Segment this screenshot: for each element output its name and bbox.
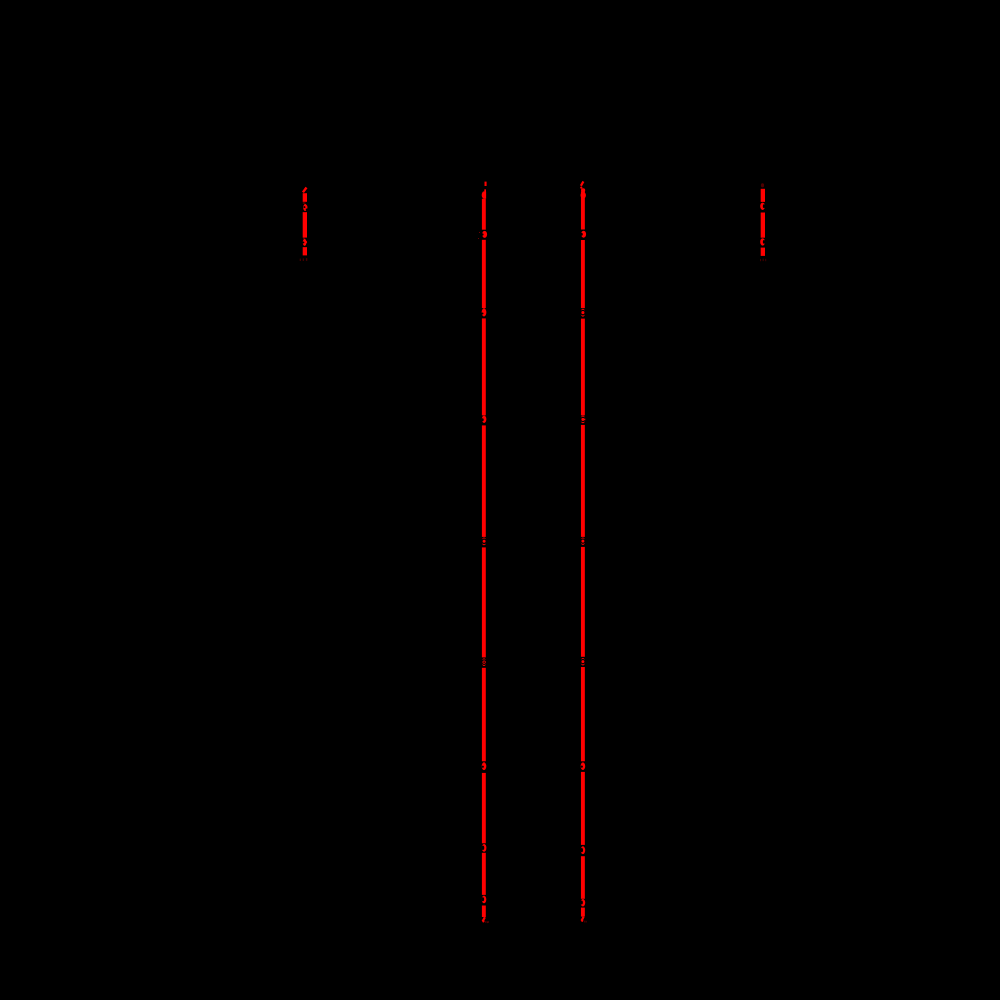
series 2: mark 7 red blob	[482, 844, 487, 852]
series 3: mark 1 red blob	[581, 231, 586, 238]
series 2: bottom end blob	[482, 920, 484, 923]
series 1: bar segment b	[303, 212, 307, 237]
series 3: top blob upper	[581, 188, 585, 192]
series 3: end label sliver 2	[585, 921, 588, 923]
series 2: mark 2 left notch	[481, 312, 483, 314]
series 3: mark 6 red blob	[581, 762, 586, 770]
series 3: mark 7 left bite	[580, 848, 583, 852]
series 3: mark 4 glyph ring	[581, 539, 585, 543]
series 2: mark 8 red blob	[482, 896, 487, 904]
series 2: mark 5 red blob	[482, 658, 487, 666]
series 2: top label red fragment 2	[484, 189, 486, 192]
series 2: mark 7 left bite	[482, 846, 485, 850]
series 2: mark 5 glyph ring	[482, 660, 487, 665]
series 3: bar segment c	[581, 319, 585, 416]
series 2: end label sliver 3	[487, 921, 490, 923]
series 2: mark 3 red blob	[482, 416, 487, 423]
series 2: mark 5 center dot	[483, 661, 485, 663]
series 1: mark A glyph counter hole	[304, 206, 306, 208]
series 2: mark 1 left notch	[481, 233, 483, 235]
series 1: mark A red blob (marker+label gap)	[303, 204, 307, 211]
series 3: bar segment h	[581, 856, 585, 899]
series 1: mark A right bite	[306, 209, 308, 211]
series 1: mark A dim band	[303, 202, 306, 204]
series 3: bar segment i	[581, 908, 585, 917]
series 4: top dim dot	[761, 183, 764, 187]
series 2: mark 6 red blob	[482, 762, 487, 770]
series 4: mark B red blob	[760, 238, 765, 245]
series 1: end label sliver 3	[306, 258, 307, 261]
series 4: mark A right bite	[763, 204, 765, 208]
series 3: mark 1 left notch	[580, 233, 582, 236]
series 2: top red blob flat right	[484, 192, 486, 199]
series 2: bar segment c	[482, 318, 486, 415]
series 3: top connector dash	[581, 181, 584, 185]
series 2: top red blob	[482, 191, 486, 198]
series 2: bar segment e	[482, 547, 486, 657]
series 3: mark 5 glyph ring	[581, 660, 585, 664]
series 2: bar segment h	[482, 853, 486, 895]
series 4: end label sliver 3	[765, 259, 766, 261]
series 4: mark A red blob	[760, 203, 765, 210]
series 4: mark B right bite	[763, 240, 765, 244]
series 4: end label sliver 2	[763, 259, 764, 262]
series 1: mark B dim band	[303, 238, 305, 239]
series 3: mark 5 red blob	[581, 658, 586, 665]
series 3: bar segment d	[581, 425, 585, 537]
series 2: mark 6 left notch	[482, 766, 484, 768]
series 2: end label sliver 1	[485, 921, 486, 923]
series 4: bar segment c	[761, 248, 765, 256]
series 3: mark 8 left bite	[580, 901, 583, 905]
series 2: end label sliver 2	[487, 921, 488, 923]
series 3: mark 4 red blob	[581, 538, 586, 545]
series 3: bar segment b	[581, 240, 585, 308]
series 2: mark 4 red blob	[482, 538, 487, 546]
series 3: mark 2 glyph ring	[581, 310, 585, 314]
series 2: bottom connector tail	[483, 917, 485, 921]
series 3: bar segment e	[581, 547, 585, 657]
series 3: mark 3 red blob	[581, 416, 586, 424]
series 1: mark A right bump	[306, 205, 308, 209]
series 2: bar segment f	[482, 668, 486, 762]
series 2: mark 1 red blob	[482, 231, 487, 238]
series 3: mark 6 left notch	[581, 766, 583, 768]
series 3: top blob lower	[581, 192, 586, 199]
series 3: bottom end blob	[581, 919, 583, 922]
series 1: bar segment c	[303, 247, 307, 255]
series 1: mark B left notch	[302, 241, 304, 243]
series 3: mark 3 ring opening	[584, 419, 585, 421]
series 1: end label sliver 2	[303, 258, 304, 261]
series 4: bar segment a	[761, 189, 765, 202]
series 2: mark 1 outer dot 2	[478, 238, 479, 239]
series 1: end label sliver 1	[300, 259, 301, 261]
series 3: mark 7 red blob	[581, 846, 586, 854]
series 4: end label sliver 1	[760, 259, 761, 261]
series 2: bar segment g	[482, 773, 486, 843]
series 3: top red dot	[580, 187, 582, 189]
series 1: mark B red blob	[303, 239, 307, 246]
series 2: top label red fragment 1	[485, 182, 487, 186]
series 3: mark 8 red blob	[581, 899, 586, 906]
series 2: bar segment d	[482, 425, 486, 537]
series 3: bar segment f	[581, 667, 585, 761]
series 2: mark 8 left bite	[482, 897, 485, 901]
series 2: mark 2 red blob	[482, 308, 487, 316]
series 3: bar segment a	[581, 192, 585, 230]
series 2: bar segment a	[482, 199, 486, 230]
series 2: bar segment i	[482, 906, 486, 918]
series 3: mark 3 glyph ring	[581, 417, 585, 421]
series 4: bar segment b	[761, 213, 765, 238]
series 3: mark 2 red blob	[581, 309, 586, 317]
series 3: end label sliver 1	[584, 921, 585, 923]
series 2: mark 1 outer dot 1	[479, 232, 480, 233]
series 3: bottom connector tail	[582, 917, 584, 921]
series 3: bar segment g	[581, 772, 585, 845]
series 1: mark B right bump	[305, 241, 307, 244]
series 1: top connector dash	[303, 188, 307, 193]
series 1: bar segment a	[303, 193, 307, 202]
series 2: bar segment b	[482, 240, 486, 308]
series 2: mark 4 glyph ring	[482, 539, 486, 543]
series 2: mark 3 left notch	[482, 418, 484, 421]
